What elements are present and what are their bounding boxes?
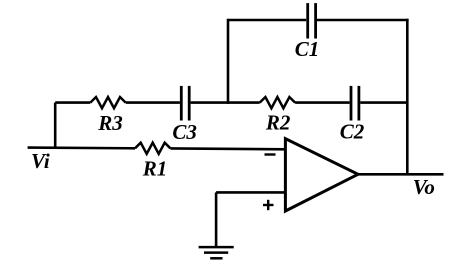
wire R3 to C3 (126, 101, 180, 104)
wire drop to ground (215, 192, 218, 247)
wire op-amp output (358, 173, 444, 176)
wire top feedback rail right segment (317, 19, 409, 22)
wire left leg of C1 loop (227, 19, 230, 104)
node Vo output terminal (413, 175, 435, 199)
svg-text:C2: C2 (340, 120, 365, 144)
wire right leg from C1 loop down to output node (406, 19, 409, 175)
svg-text:C3: C3 (172, 120, 197, 144)
resistor R3 (90, 97, 125, 135)
ground (199, 247, 234, 258)
capacitor C1 (295, 3, 320, 61)
resistor R1 (135, 143, 170, 181)
wire R2 to C2 (295, 101, 350, 104)
svg-text:Vi: Vi (31, 149, 50, 173)
wire top feedback rail left segment (228, 19, 306, 22)
capacitor C2 (340, 86, 365, 144)
inverting input minus sign (265, 153, 276, 155)
wire C2 to right leg (360, 101, 407, 104)
node Vi input terminal (28, 148, 135, 173)
wire non-inverting input (216, 191, 285, 194)
wire R1 to op-amp inverting input (170, 147, 285, 151)
svg-text:C1: C1 (295, 37, 320, 61)
svg-text:Vo: Vo (413, 175, 435, 199)
svg-text:R3: R3 (97, 111, 123, 135)
wire node A to R3 (55, 101, 90, 104)
op-amp U1 (285, 139, 358, 211)
non-inverting input plus sign (263, 200, 274, 210)
svg-text:R2: R2 (265, 110, 291, 134)
capacitor C3 (172, 86, 197, 144)
wire left drop from middle rail to Vi rail (54, 103, 57, 148)
wire C3 to R2 through junction with C1 loop leg (191, 101, 260, 104)
svg-text:R1: R1 (142, 156, 168, 180)
resistor R2 (260, 97, 295, 134)
